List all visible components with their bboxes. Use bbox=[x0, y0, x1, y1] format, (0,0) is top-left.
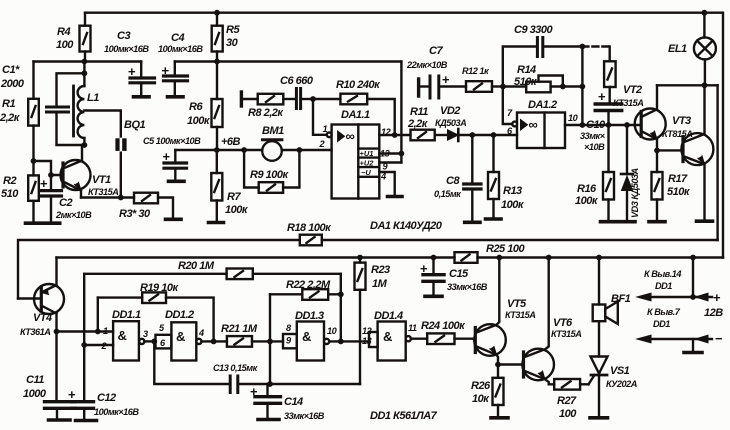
resistor R18 bbox=[287, 222, 332, 245]
gate DD1.1 bbox=[101, 309, 149, 361]
svg-text:R24 100к: R24 100к bbox=[421, 320, 466, 332]
svg-text:DA1.2: DA1.2 bbox=[528, 99, 557, 111]
svg-text:∞: ∞ bbox=[529, 117, 538, 132]
wire feedback vertical bbox=[581, 47, 583, 126]
wire top +12V rail bbox=[85, 13, 723, 258]
resistor R20 bbox=[84, 260, 341, 279]
node VD2-C8 bbox=[469, 132, 475, 138]
node R10 feedback bbox=[392, 132, 398, 138]
ground minus terminal bbox=[684, 351, 702, 355]
capacitor C13 bbox=[154, 341, 270, 392]
svg-text:R2: R2 bbox=[3, 175, 16, 187]
resistor R12 bbox=[462, 66, 503, 92]
svg-text:12: 12 bbox=[362, 326, 373, 336]
resistor R4 bbox=[56, 13, 91, 62]
ground C4 bbox=[168, 95, 184, 99]
svg-text:+: + bbox=[598, 89, 606, 104]
svg-text:DD1 К561ЛА7: DD1 К561ЛА7 bbox=[370, 410, 438, 422]
svg-text:R3* 30: R3* 30 bbox=[119, 208, 151, 220]
node mic-right bbox=[297, 147, 303, 153]
svg-text:DD1.4: DD1.4 bbox=[374, 310, 403, 322]
capacitor C1 bbox=[47, 73, 85, 145]
wire C14 line to R23 bbox=[270, 383, 360, 385]
svg-text:13: 13 bbox=[362, 336, 372, 346]
svg-text:VS1: VS1 bbox=[610, 365, 630, 377]
ground DA1.1 bbox=[388, 195, 403, 199]
ground R2 bbox=[26, 221, 42, 225]
lamp EL1 bbox=[668, 13, 716, 86]
svg-text:R18 100к: R18 100к bbox=[287, 222, 332, 234]
wire +12V bus bbox=[57, 256, 724, 258]
ground C8 bbox=[465, 221, 480, 225]
wire emitter to VT3 base bbox=[657, 149, 682, 151]
ground R26 bbox=[491, 416, 508, 420]
resistor R22 bbox=[270, 279, 341, 300]
svg-text:C14: C14 bbox=[284, 396, 303, 408]
resistor R6 bbox=[187, 62, 223, 151]
capacitor C3 bbox=[104, 30, 155, 96]
svg-text:33мк×16В: 33мк×16В bbox=[447, 282, 488, 292]
svg-text:ВМ1: ВМ1 bbox=[262, 125, 284, 137]
ground C11 bbox=[49, 418, 71, 422]
node R1-R2-base bbox=[31, 158, 37, 164]
svg-text:11: 11 bbox=[408, 323, 417, 333]
transistor VT2 bbox=[613, 84, 666, 150]
wire collector lamp node bbox=[657, 84, 718, 86]
wire gate4 out bbox=[411, 338, 427, 340]
wire emitter line bbox=[81, 196, 134, 198]
svg-text:VT3: VT3 bbox=[672, 115, 691, 127]
svg-text:1М: 1М bbox=[372, 278, 388, 290]
svg-text:1: 1 bbox=[323, 124, 328, 134]
capacitor C4 bbox=[158, 32, 203, 96]
transistor VT6 bbox=[522, 258, 581, 385]
svg-text:КТ315А: КТ315А bbox=[551, 329, 581, 339]
svg-text:10к: 10к bbox=[472, 393, 490, 405]
svg-text:КТ815А: КТ815А bbox=[662, 129, 692, 139]
svg-text:2,2к: 2,2к bbox=[407, 118, 429, 130]
svg-text:К Выв.7: К Выв.7 bbox=[647, 307, 681, 317]
svg-text:C3: C3 bbox=[117, 30, 130, 42]
node VT6 collector bus bbox=[546, 255, 552, 261]
wire feedback line y240 bbox=[18, 240, 718, 299]
resistor R23 bbox=[355, 258, 391, 385]
resistor R11 bbox=[407, 106, 448, 140]
ground VT3 bbox=[697, 219, 713, 223]
svg-text:510: 510 bbox=[1, 188, 19, 200]
node tank bottom bbox=[82, 142, 88, 148]
node out1-C13 bbox=[151, 339, 157, 345]
svg-text:2,2к: 2,2к bbox=[0, 112, 21, 124]
svg-text:R22 2,2М: R22 2,2М bbox=[286, 279, 331, 291]
node R5-R6 bbox=[214, 59, 220, 65]
node R23 bus bbox=[357, 255, 363, 261]
node tank top bbox=[82, 70, 88, 76]
svg-text:+: + bbox=[250, 384, 258, 399]
wire lamp node to lower feedback bbox=[716, 85, 718, 240]
wire pin7 drop bbox=[503, 87, 513, 125]
node C10-R16 bbox=[606, 122, 612, 128]
svg-text:3: 3 bbox=[143, 329, 148, 339]
resistor R1 bbox=[0, 62, 39, 162]
wire dash link C9 to R15 bbox=[582, 45, 609, 47]
svg-text:R26: R26 bbox=[471, 380, 491, 392]
ground C15 bbox=[425, 294, 442, 298]
svg-text:КУ202А: КУ202А bbox=[606, 379, 637, 389]
node VT2 emitter bbox=[654, 148, 660, 154]
svg-text:30: 30 bbox=[226, 37, 239, 49]
svg-text:&: & bbox=[118, 328, 127, 343]
svg-text:12В: 12В bbox=[704, 307, 723, 319]
wire oscillator supply line bbox=[34, 60, 142, 62]
svg-text:BF1: BF1 bbox=[611, 293, 631, 305]
wire pin13 bbox=[379, 152, 401, 154]
svg-text:R27: R27 bbox=[557, 395, 577, 407]
capacitor C6 bbox=[280, 75, 314, 109]
svg-text:+6В: +6В bbox=[221, 136, 241, 148]
resistor R16 bbox=[575, 125, 614, 220]
wire R4 node to tank bbox=[83, 62, 85, 74]
thyristor VS1 bbox=[589, 321, 637, 416]
resistor R19 bbox=[98, 282, 214, 340]
svg-text:C8: C8 bbox=[446, 175, 460, 187]
svg-text:R13: R13 bbox=[503, 185, 522, 197]
resistor R7 bbox=[211, 150, 249, 221]
wire R14 to C9 vertical bbox=[563, 85, 583, 87]
ground R3 bbox=[166, 218, 182, 222]
node R19-pin1 bbox=[95, 329, 101, 335]
svg-text:КТ315А: КТ315А bbox=[88, 187, 118, 197]
svg-text:VT6: VT6 bbox=[553, 317, 573, 329]
svg-text:R20 1М: R20 1М bbox=[178, 260, 215, 272]
ground VS1 bbox=[590, 416, 608, 420]
wire R20 drop and pin2 bbox=[84, 274, 113, 345]
node VD3 top bbox=[624, 122, 630, 128]
capacitor C7 bbox=[406, 45, 466, 98]
svg-text:33мк×: 33мк× bbox=[580, 131, 606, 141]
svg-text:VD2: VD2 bbox=[440, 105, 460, 117]
svg-text:C12: C12 bbox=[97, 392, 116, 404]
node pin13 bbox=[399, 151, 405, 157]
resistor R8 bbox=[241, 94, 284, 119]
ground R7 bbox=[209, 221, 224, 225]
svg-text:100: 100 bbox=[56, 39, 74, 51]
node C6-R10-pin1 bbox=[310, 96, 316, 102]
wire R22 left vertical bbox=[269, 294, 271, 384]
node rail-EL1 bbox=[702, 10, 708, 16]
wire pin10 output bbox=[565, 124, 640, 126]
svg-text:100к: 100к bbox=[501, 199, 525, 211]
svg-text:C1*: C1* bbox=[2, 64, 20, 76]
svg-text:R9 100к: R9 100к bbox=[250, 169, 289, 181]
svg-text:C9 3300: C9 3300 bbox=[514, 24, 553, 36]
wire R20-R22 drop bbox=[340, 274, 342, 342]
svg-text:DA1 К140УД20: DA1 К140УД20 bbox=[370, 220, 443, 232]
svg-text:R14: R14 bbox=[517, 64, 536, 76]
node pin10-feedback bbox=[580, 122, 586, 128]
svg-text:1: 1 bbox=[103, 326, 108, 336]
wire +9V line right segment bbox=[175, 60, 402, 62]
node R19 right bbox=[211, 339, 217, 345]
svg-text:&: & bbox=[176, 329, 185, 344]
resistor R2 bbox=[1, 161, 39, 222]
svg-text:КТ315А: КТ315А bbox=[613, 98, 643, 108]
svg-text:100мк×16В: 100мк×16В bbox=[94, 407, 139, 417]
op-amp DA1.1 bbox=[319, 109, 392, 199]
svg-text:C2: C2 bbox=[59, 197, 72, 209]
wire pin4 to ground bbox=[379, 172, 394, 195]
svg-text:+: + bbox=[442, 72, 450, 87]
resistor R25 bbox=[455, 243, 526, 263]
resistor R24 bbox=[421, 320, 474, 344]
node rail-R5 bbox=[214, 10, 220, 16]
capacitor C8 bbox=[434, 135, 481, 220]
svg-text:L1: L1 bbox=[87, 92, 99, 104]
node BF1 bus bbox=[596, 255, 602, 261]
svg-text:0,15мк: 0,15мк bbox=[434, 189, 462, 199]
svg-text:DD1.3: DD1.3 bbox=[295, 310, 324, 322]
node R14 tap bbox=[560, 84, 566, 90]
node VT5 emitter bbox=[495, 362, 501, 368]
resistor R5 bbox=[212, 13, 241, 62]
svg-text:33мк×16В: 33мк×16В bbox=[284, 411, 325, 421]
svg-text:100к: 100к bbox=[225, 204, 249, 216]
svg-text:−U: −U bbox=[361, 168, 371, 177]
terminal bar R8 bbox=[240, 92, 243, 106]
wire R19 left drop bbox=[97, 298, 99, 332]
svg-text:К Выв.14: К Выв.14 bbox=[644, 269, 681, 279]
svg-text:10: 10 bbox=[327, 326, 338, 336]
svg-text:DD1.1: DD1.1 bbox=[112, 309, 141, 321]
svg-text:C6 660: C6 660 bbox=[280, 75, 314, 87]
node DD1.3 input bbox=[267, 339, 273, 345]
svg-text:−: − bbox=[715, 331, 723, 346]
ground C14 bbox=[258, 418, 279, 422]
transistor VT3 bbox=[662, 85, 713, 219]
resistor R14 with tap bbox=[503, 64, 563, 92]
svg-text:+: + bbox=[68, 387, 76, 402]
node C9-R15 bbox=[580, 44, 586, 50]
capacitor C14 bbox=[250, 384, 325, 421]
node R6-R7 bbox=[214, 147, 220, 153]
node +12 drop bbox=[690, 255, 696, 261]
transistor VT5 bbox=[474, 258, 535, 365]
svg-text:100: 100 bbox=[559, 408, 577, 420]
svg-text:VT1: VT1 bbox=[92, 174, 111, 186]
node gate3 out bbox=[338, 339, 344, 345]
svg-text:КТ361А: КТ361А bbox=[20, 327, 50, 337]
svg-text:VT2: VT2 bbox=[623, 84, 642, 96]
speaker BF1 bbox=[593, 258, 631, 325]
svg-text:C13 0,15мк: C13 0,15мк bbox=[213, 363, 259, 373]
ground C5 bbox=[169, 180, 185, 184]
resistor R3 bbox=[119, 193, 173, 220]
svg-text:R4: R4 bbox=[57, 26, 70, 38]
svg-text:R19 10к: R19 10к bbox=[140, 282, 179, 294]
svg-text:100мк×16В: 100мк×16В bbox=[104, 44, 149, 54]
svg-text:+U2: +U2 bbox=[360, 159, 375, 168]
capacitor C12 bbox=[68, 345, 139, 419]
capacitor C2 bbox=[40, 175, 92, 222]
capacitor C9 bbox=[514, 24, 582, 57]
quartz BQ1 bbox=[84, 111, 145, 198]
svg-text:DD1: DD1 bbox=[653, 319, 670, 329]
wire +6V line bbox=[175, 149, 331, 151]
node R12-R14-C9 bbox=[500, 84, 506, 90]
gate DD1.4 bbox=[362, 310, 417, 361]
wire gate3 out line bbox=[329, 340, 369, 342]
node VT4 collector bbox=[54, 329, 60, 335]
gate DD1.2 bbox=[156, 309, 205, 361]
wire collector to DD1.1 pin1 bbox=[57, 330, 114, 332]
wire +12 drop bbox=[692, 258, 694, 298]
svg-text:2мк×10В: 2мк×10В bbox=[55, 210, 92, 220]
resistor R27 bbox=[554, 379, 588, 420]
resistor R17 bbox=[652, 150, 691, 219]
svg-text:∞: ∞ bbox=[346, 129, 355, 144]
wire C9 branch up bbox=[503, 47, 536, 87]
svg-text:КТ315А: КТ315А bbox=[505, 310, 535, 320]
svg-text:DD1.2: DD1.2 bbox=[165, 309, 194, 321]
node EL1 bottom bbox=[702, 82, 708, 88]
wire gate1 out bbox=[144, 340, 155, 342]
svg-text:100к: 100к bbox=[187, 115, 211, 127]
ground C2 bbox=[44, 221, 59, 225]
svg-text:R6: R6 bbox=[189, 101, 203, 113]
node C13-C14 bbox=[267, 381, 273, 387]
ground R17 bbox=[649, 220, 665, 224]
svg-text:R21 1М: R21 1М bbox=[221, 323, 258, 335]
node R13 top bbox=[491, 132, 497, 138]
ground C12 bbox=[76, 419, 97, 423]
svg-text:R16: R16 bbox=[577, 183, 597, 195]
svg-text:EL1: EL1 bbox=[668, 43, 687, 55]
svg-text:R8 2,2к: R8 2,2к bbox=[248, 107, 284, 119]
svg-text:R10 240к: R10 240к bbox=[336, 79, 381, 91]
capacitor C5 bbox=[143, 136, 201, 180]
wire VT5 emitter to VT6 base bbox=[498, 363, 522, 365]
node feedback vertical bbox=[580, 84, 586, 90]
ground R16 bbox=[601, 220, 617, 224]
svg-text:C7: C7 bbox=[429, 45, 443, 57]
resistor R15 bbox=[604, 47, 616, 103]
ground R13 bbox=[486, 217, 502, 221]
svg-text:R11: R11 bbox=[410, 106, 428, 118]
diode VD2 bbox=[435, 105, 517, 141]
transistor VT4 bbox=[18, 258, 64, 338]
node emitter-BQ1 bbox=[118, 195, 124, 201]
capacitor C15 bbox=[420, 258, 488, 295]
terminal bar C7 bbox=[417, 79, 420, 96]
wire pin12 output bbox=[379, 134, 410, 136]
svg-text:100к: 100к bbox=[575, 195, 599, 207]
node VT5 collector bus bbox=[496, 255, 502, 261]
inductor L1 bbox=[74, 73, 100, 145]
resistor R21 bbox=[221, 323, 283, 347]
node pin2-C12 bbox=[81, 342, 87, 348]
transistor VT1 bbox=[61, 145, 119, 198]
wire gate2 out bbox=[202, 340, 227, 342]
node C15 bus bbox=[431, 255, 437, 261]
svg-text:C10: C10 bbox=[586, 119, 606, 131]
svg-text:510к: 510к bbox=[514, 76, 538, 88]
svg-text:C5 100мк×10В: C5 100мк×10В bbox=[143, 136, 201, 146]
svg-text:&: & bbox=[302, 329, 311, 344]
node base-C2 bbox=[48, 172, 54, 178]
ground C3 bbox=[134, 95, 150, 99]
svg-text:10: 10 bbox=[568, 113, 579, 123]
node R22 right bbox=[338, 291, 344, 297]
microphone BM1 bbox=[262, 125, 284, 161]
svg-text:2000: 2000 bbox=[0, 78, 25, 90]
svg-text:+: + bbox=[40, 176, 48, 191]
resistor R10 bbox=[313, 79, 395, 135]
svg-text:VD3 КД503А: VD3 КД503А bbox=[630, 168, 640, 218]
diode VD3 bbox=[621, 125, 640, 220]
terminal minus line bbox=[637, 307, 723, 351]
svg-text:+: + bbox=[713, 290, 721, 305]
svg-text:510к: 510к bbox=[667, 186, 691, 198]
svg-text:+: + bbox=[163, 149, 171, 164]
svg-text:C4: C4 bbox=[171, 32, 184, 44]
resistor R26 bbox=[471, 365, 504, 416]
wire pin1 drop bbox=[313, 99, 329, 135]
terminal +12V line bbox=[637, 269, 723, 319]
svg-text:R25 100: R25 100 bbox=[486, 243, 525, 255]
svg-text:C15: C15 bbox=[449, 268, 469, 280]
wire base link bbox=[34, 161, 62, 175]
svg-text:R1: R1 bbox=[2, 98, 15, 110]
svg-text:+: + bbox=[128, 64, 136, 79]
node mic-left bbox=[241, 147, 247, 153]
svg-text:VT5: VT5 bbox=[507, 298, 527, 310]
svg-text:R23: R23 bbox=[371, 264, 390, 276]
resistor R9 bbox=[244, 150, 299, 193]
svg-text:4: 4 bbox=[198, 328, 204, 338]
op-amp DA1.2 bbox=[507, 99, 579, 148]
svg-text:R12 1к: R12 1к bbox=[462, 66, 490, 76]
svg-text:DD1: DD1 bbox=[655, 281, 672, 291]
gate DD1.3 bbox=[283, 310, 338, 361]
svg-text:&: & bbox=[383, 329, 392, 344]
svg-text:×10В: ×10В bbox=[584, 142, 605, 152]
svg-text:22мк×10В: 22мк×10В bbox=[406, 60, 448, 70]
svg-text:VT4: VT4 bbox=[33, 312, 52, 324]
capacitor C11 bbox=[23, 332, 75, 419]
svg-text:КД503А: КД503А bbox=[435, 118, 466, 128]
svg-text:R5: R5 bbox=[226, 24, 240, 36]
capacitor C10 bbox=[580, 89, 622, 152]
svg-text:100мк×16В: 100мк×16В bbox=[158, 44, 203, 54]
resistor R13 bbox=[488, 135, 525, 217]
svg-text:+U1: +U1 bbox=[360, 149, 374, 158]
svg-text:+: + bbox=[162, 63, 170, 78]
svg-text:DA1.1: DA1.1 bbox=[341, 109, 370, 121]
svg-text:R7: R7 bbox=[227, 191, 241, 203]
node R4 bottom bbox=[82, 59, 88, 65]
svg-text:C11: C11 bbox=[26, 374, 44, 386]
wire +6V drop to supply pins bbox=[400, 62, 402, 163]
wire pin9 bbox=[379, 161, 401, 163]
svg-text:BQ1: BQ1 bbox=[124, 119, 146, 131]
ground VD3 bbox=[619, 220, 635, 224]
svg-text:R17: R17 bbox=[668, 173, 688, 185]
svg-text:1000: 1000 bbox=[23, 388, 47, 400]
svg-text:+: + bbox=[420, 261, 428, 276]
